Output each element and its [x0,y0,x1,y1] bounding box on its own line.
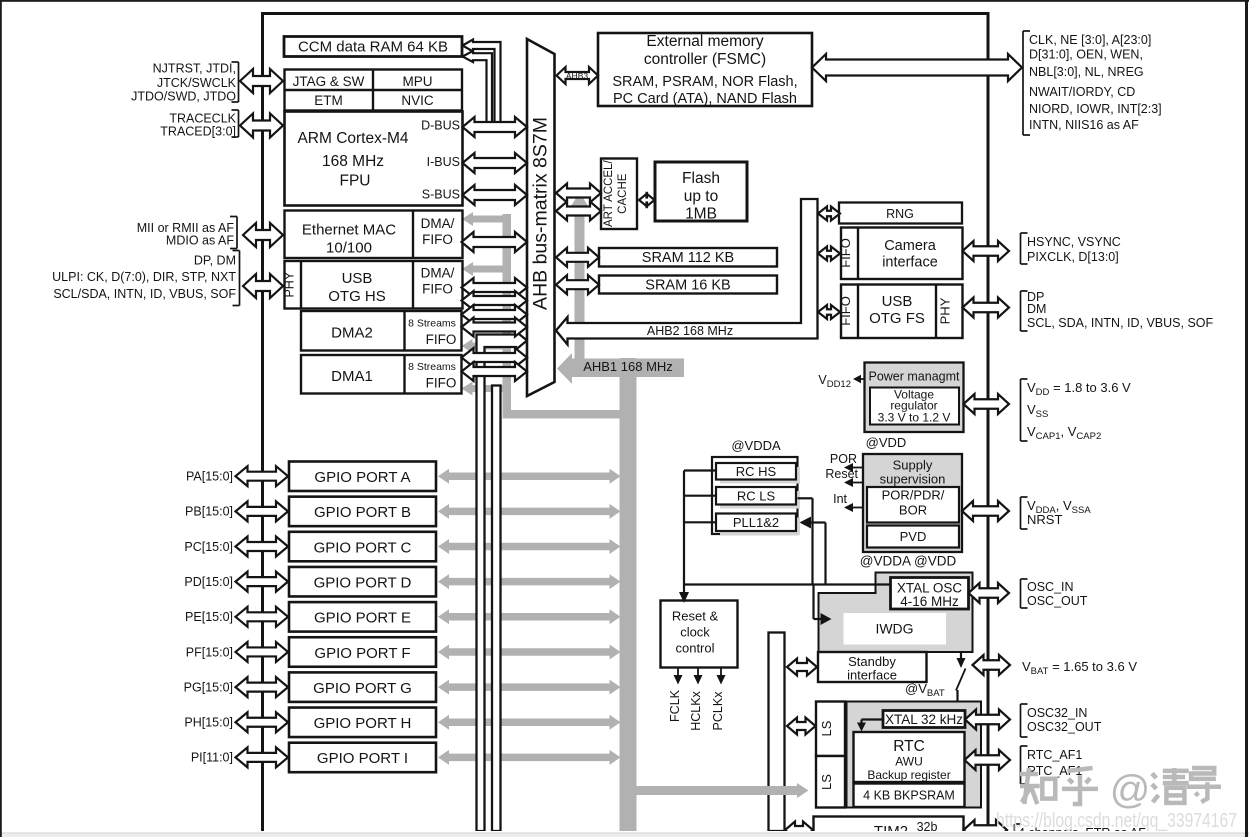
svg-text:FIFO: FIFO [422,232,453,247]
svg-text:https://blog.csdn.net/qq_33974: https://blog.csdn.net/qq_33974167 [996,809,1237,832]
svg-text:DMA/: DMA/ [421,216,455,231]
svg-text:ART ACCEL/: ART ACCEL/ [603,160,615,227]
svg-text:PG[15:0]: PG[15:0] [184,680,233,694]
svg-text:RTC: RTC [893,738,925,755]
svg-text:GPIO PORT E: GPIO PORT E [314,610,411,627]
svg-text:NWAIT/IORDY, CD: NWAIT/IORDY, CD [1029,85,1135,99]
svg-text:DP, DM: DP, DM [194,254,236,268]
svg-text:Reset: Reset [825,467,858,481]
svg-text:AHB3: AHB3 [566,71,588,81]
svg-text:PI[11:0]: PI[11:0] [191,751,233,765]
svg-text:PB[15:0]: PB[15:0] [185,505,233,519]
svg-text:interface: interface [882,255,938,271]
svg-text:interface: interface [847,668,897,683]
svg-text:MDIO as AF: MDIO as AF [166,234,234,248]
svg-text:MPU: MPU [403,74,433,89]
svg-text:TRACECLK: TRACECLK [169,112,236,126]
svg-text:PC[15:0]: PC[15:0] [184,540,233,554]
svg-text:JTCK/SWCLK: JTCK/SWCLK [157,76,237,90]
svg-text:@: @ [1110,768,1151,812]
svg-text:Backup register: Backup register [867,768,950,782]
svg-text:LS: LS [819,720,834,736]
svg-text:CCM data RAM 64 KB: CCM data RAM 64 KB [298,39,448,56]
svg-text:DMA2: DMA2 [331,325,373,342]
svg-text:OTG HS: OTG HS [328,288,386,305]
svg-text:SRAM, PSRAM, NOR Flash,: SRAM, PSRAM, NOR Flash, [612,74,797,90]
svg-text:controller (FSMC): controller (FSMC) [644,51,766,68]
svg-text:clock: clock [680,625,710,640]
svg-text:10/100: 10/100 [326,240,372,257]
svg-text:1MB: 1MB [685,206,717,223]
svg-text:HSYNC, VSYNC: HSYNC, VSYNC [1027,235,1121,249]
svg-text:PH[15:0]: PH[15:0] [184,716,233,730]
svg-text:FCLK: FCLK [668,689,682,722]
svg-text:NVIC: NVIC [401,93,434,108]
svg-text:D-BUS: D-BUS [421,119,460,133]
svg-text:PVD: PVD [900,529,927,544]
svg-text:JTDO/SWD, JTDO: JTDO/SWD, JTDO [131,90,236,104]
svg-text:TRACED[3:0]: TRACED[3:0] [160,125,236,139]
svg-text:I-BUS: I-BUS [427,155,460,169]
svg-text:OSC_IN: OSC_IN [1027,580,1074,594]
svg-text:168 MHz: 168 MHz [322,153,384,170]
svg-text:ULPI: CK, D(7:0), DIR, STP, NX: ULPI: CK, D(7:0), DIR, STP, NXT [52,270,236,284]
svg-text:S-BUS: S-BUS [422,188,460,202]
svg-text:OTG FS: OTG FS [869,310,925,327]
svg-text:SRAM 16 KB: SRAM 16 KB [645,278,730,294]
svg-text:SCL, SDA, INTN, ID, VBUS, SOF: SCL, SDA, INTN, ID, VBUS, SOF [1027,316,1214,330]
svg-text:AHB2 168 MHz: AHB2 168 MHz [647,324,733,338]
svg-text:CLK, NE [3:0], A[23:0]: CLK, NE [3:0], A[23:0] [1029,33,1151,47]
svg-text:RC LS: RC LS [737,488,776,503]
svg-text:USB: USB [882,293,913,310]
svg-text:PE[15:0]: PE[15:0] [185,610,233,624]
svg-text:NRST: NRST [1027,512,1062,527]
svg-text:PC Card (ATA), NAND Flash: PC Card (ATA), NAND Flash [613,91,797,107]
svg-text:DM: DM [1027,302,1046,316]
svg-text:Reset &: Reset & [672,609,719,624]
svg-text:FIFO: FIFO [422,282,453,297]
svg-text:3.3 V to 1.2 V: 3.3 V to 1.2 V [878,411,951,425]
svg-text:up to: up to [684,188,718,205]
svg-text:BOR: BOR [899,503,927,518]
svg-text:D[31:0], OEN, WEN,: D[31:0], OEN, WEN, [1029,48,1143,62]
svg-text:GPIO PORT C: GPIO PORT C [314,539,412,556]
svg-text:INTN, NIIS16 as AF: INTN, NIIS16 as AF [1029,118,1139,132]
svg-text:PD[15:0]: PD[15:0] [184,575,233,589]
svg-text:PHY: PHY [938,297,953,324]
svg-text:PA[15:0]: PA[15:0] [186,470,233,484]
svg-text:Supply: Supply [893,458,933,473]
svg-text:Ethernet MAC: Ethernet MAC [302,222,396,239]
svg-text:@VDDA @VDD: @VDDA @VDD [860,554,957,569]
svg-text:POR: POR [830,452,857,466]
svg-text:Int: Int [833,492,847,506]
svg-text:FIFO: FIFO [426,332,457,347]
svg-text:DMA1: DMA1 [331,368,373,385]
svg-text:PHY: PHY [283,271,297,297]
svg-text:ARM Cortex-M4: ARM Cortex-M4 [297,130,408,147]
svg-text:RC HS: RC HS [736,464,777,479]
svg-text:4 KB BKPSRAM: 4 KB BKPSRAM [863,789,955,803]
svg-text:FIFO: FIFO [426,376,457,391]
svg-text:POR/PDR/: POR/PDR/ [882,488,945,503]
svg-text:GPIO PORT G: GPIO PORT G [313,680,412,697]
svg-text:RNG: RNG [886,207,914,221]
svg-text:USB: USB [342,270,373,287]
svg-text:CACHE: CACHE [617,173,629,214]
svg-text:PIXCLK, D[13:0]: PIXCLK, D[13:0] [1027,250,1119,264]
svg-text:control: control [675,641,714,656]
svg-text:Flash: Flash [682,170,720,187]
svg-text:OSC32_IN: OSC32_IN [1027,706,1087,720]
svg-text:PLL1&2: PLL1&2 [733,515,779,530]
svg-text:FPU: FPU [340,173,371,190]
svg-text:PF[15:0]: PF[15:0] [186,645,233,659]
svg-text:LS: LS [819,774,834,790]
svg-text:AHB bus-matrix 8S7M: AHB bus-matrix 8S7M [530,117,552,310]
svg-text:SRAM 112 KB: SRAM 112 KB [642,250,734,266]
svg-text:IWDG: IWDG [875,621,913,637]
svg-text:8 Streams: 8 Streams [408,361,456,373]
svg-text:4-16 MHz: 4-16 MHz [900,594,959,609]
svg-text:@VDDA: @VDDA [731,438,781,453]
svg-text:Camera: Camera [884,238,937,254]
svg-text:OSC_OUT: OSC_OUT [1027,594,1088,608]
svg-text:NJTRST, JTDI,: NJTRST, JTDI, [153,62,236,76]
svg-text:XTAL 32 kHz: XTAL 32 kHz [885,712,963,727]
svg-text:OSC32_OUT: OSC32_OUT [1027,720,1102,734]
svg-text:JTAG & SW: JTAG & SW [293,74,365,89]
svg-text:GPIO PORT I: GPIO PORT I [317,750,408,767]
svg-text:DMA/: DMA/ [421,266,455,281]
svg-text:@VDD: @VDD [866,435,907,450]
svg-text:supervision: supervision [880,472,946,487]
svg-text:ETM: ETM [314,93,343,108]
svg-text:GPIO PORT F: GPIO PORT F [314,645,410,662]
svg-text:8 Streams: 8 Streams [408,318,456,330]
svg-text:GPIO PORT H: GPIO PORT H [314,715,412,732]
svg-text:GPIO PORT D: GPIO PORT D [314,574,412,591]
svg-text:SCL/SDA, INTN, ID, VBUS, SOF: SCL/SDA, INTN, ID, VBUS, SOF [53,287,236,301]
svg-text:AHB1 168 MHz: AHB1 168 MHz [583,359,673,374]
svg-text:AWU: AWU [895,755,923,769]
svg-text:NBL[3:0], NL, NREG: NBL[3:0], NL, NREG [1029,65,1144,79]
svg-text:GPIO PORT B: GPIO PORT B [314,504,411,521]
svg-text:HCLKx: HCLKx [689,690,703,730]
svg-text:Power managmt: Power managmt [868,370,960,384]
svg-text:RTC_AF1: RTC_AF1 [1027,748,1082,762]
svg-text:PCLKx: PCLKx [711,691,725,731]
svg-text:External memory: External memory [646,33,763,50]
svg-text:NIORD, IOWR, INT[2:3]: NIORD, IOWR, INT[2:3] [1029,102,1162,116]
svg-text:GPIO PORT A: GPIO PORT A [314,469,410,486]
